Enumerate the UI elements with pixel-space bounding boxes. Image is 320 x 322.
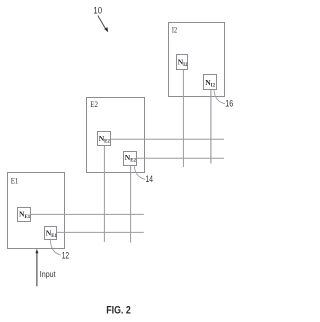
svg-text:E1: E1 bbox=[11, 177, 19, 186]
svg-text:E2: E2 bbox=[90, 100, 98, 109]
neuron NI2-b bbox=[204, 75, 217, 90]
neuron NE2-b bbox=[124, 152, 137, 166]
wire vertical from neuron NI2-b bbox=[210, 90, 212, 164]
block E2 bbox=[87, 98, 145, 173]
neuron NE1-b bbox=[45, 227, 58, 240]
callout reference 10 with arrow bbox=[93, 5, 108, 32]
block I2 bbox=[169, 23, 225, 97]
neuron NE2-a bbox=[98, 132, 111, 146]
neuron NI2-a bbox=[177, 55, 189, 70]
svg-text:16: 16 bbox=[225, 98, 233, 108]
wire vertical from neuron NI2-a bbox=[182, 70, 184, 168]
neuron NE1-a bbox=[18, 208, 31, 222]
input arrow bbox=[35, 249, 56, 286]
block E1 bbox=[8, 173, 65, 249]
wire vertical from neuron NE2-a bbox=[103, 146, 105, 243]
callout reference 16 curve bbox=[214, 90, 225, 104]
svg-text:FIG. 2: FIG. 2 bbox=[106, 305, 131, 317]
wire horizontal from neuron NE2-a bbox=[111, 138, 225, 140]
wire vertical from neuron NE2-b bbox=[130, 166, 132, 243]
svg-text:12: 12 bbox=[62, 251, 69, 261]
callout reference 14 curve bbox=[134, 166, 145, 180]
wire horizontal from neuron NE2-b bbox=[137, 157, 225, 159]
svg-text:14: 14 bbox=[146, 174, 153, 184]
wire horizontal from neuron NE1-a bbox=[31, 213, 144, 215]
callout reference 12 curve bbox=[50, 240, 60, 255]
svg-text:I2: I2 bbox=[172, 26, 177, 35]
svg-text:10: 10 bbox=[93, 5, 102, 15]
wire horizontal from neuron NE1-b bbox=[57, 231, 144, 233]
svg-text:Input: Input bbox=[40, 269, 56, 279]
